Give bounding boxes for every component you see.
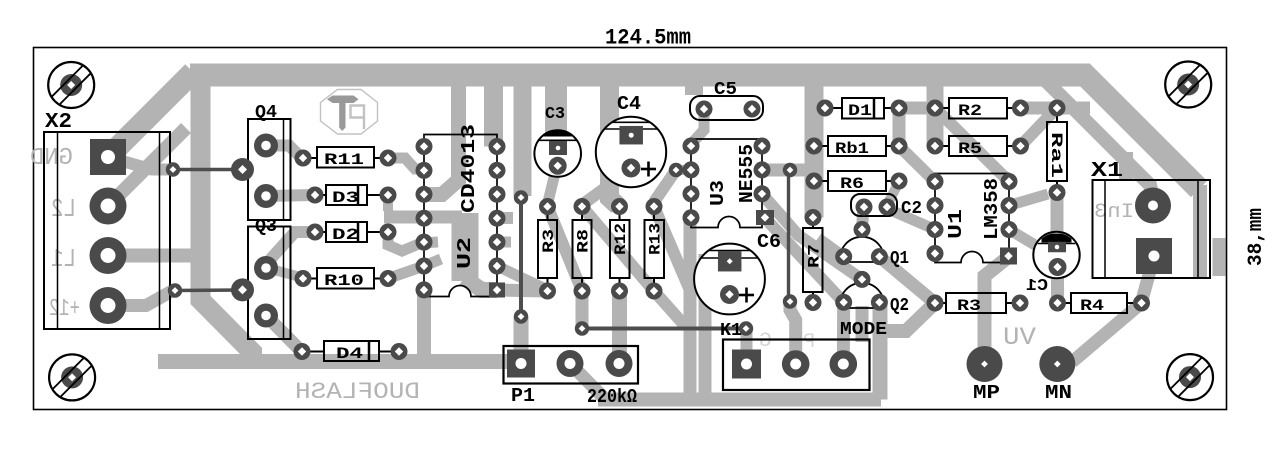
wire: row y217 into U2: [384, 211, 462, 224]
wire: bar elbow to U2 square pad: [464, 278, 497, 290]
pads C2: [856, 199, 873, 216]
pad X2 L2: [90, 188, 127, 225]
resistor R10: [317, 268, 374, 289]
diode D4: [324, 341, 379, 361]
wire: dark horizontal via582 to K1 via: [582, 327, 746, 331]
wire: band inner diagonal to X1: [1045, 80, 1153, 199]
wire: R5 right diag up: [1021, 113, 1053, 146]
svg-text:P: P: [803, 331, 815, 354]
mounting hole top-right: [1165, 62, 1211, 108]
pads Q2: [854, 271, 871, 288]
svg-text:C4: C4: [617, 93, 641, 115]
capacitor C4 body: [596, 117, 666, 187]
wire: band bar b2 to U2 right pin: [484, 75, 503, 147]
wire: via790 to K1 pad2: [790, 302, 796, 365]
wire: U2 right pin diag to R3 bottom: [497, 266, 548, 290]
IC U3 outline: [691, 139, 762, 228]
wire: U2 right pin y218 to right: [497, 212, 513, 224]
svg-text:220kΩ: 220kΩ: [587, 386, 637, 408]
wire: dark vertical via790: [787, 170, 790, 302]
wire: diag R8 top to R13 bottom: [582, 207, 686, 328]
wire: Q2 left to K1 pad3: [837, 302, 850, 364]
wire: band bar b5 to R12 top: [610, 75, 619, 206]
svg-text:R12: R12: [612, 223, 630, 255]
svg-text:D1: D1: [848, 102, 872, 120]
resistor R7: [803, 228, 823, 292]
transistor Q3: [248, 227, 291, 340]
wire: C4 plus pad to R8 top: [583, 170, 630, 204]
capacitor C3 body: [534, 130, 581, 177]
pads left resistor group: [295, 150, 312, 167]
svg-text:L1: L1: [51, 244, 76, 274]
wire: Q1 right diag to R3b left: [879, 257, 935, 303]
svg-text:C5: C5: [714, 80, 737, 100]
pads: X2 GND square: [90, 139, 126, 175]
wire: R2 left diag to U1 pin5: [935, 108, 1009, 182]
wire: band to X2 GND diagonal: [108, 72, 193, 157]
wire: C2 left to Q1 top: [862, 207, 864, 230]
wire: R2 right to Ra1 top: [1021, 102, 1091, 115]
wire: R12 bottom to P1 pad3: [612, 291, 627, 364]
svg-text:U2: U2: [454, 237, 476, 269]
pads trimmer P1: [507, 350, 535, 378]
pads Q1: [854, 221, 871, 238]
mounting hole bottom-right: [1167, 354, 1213, 400]
connector X1 outline: [1093, 180, 1211, 278]
pads C3: [549, 141, 567, 155]
wire: X2 L1 to bar: [108, 249, 202, 263]
wire: Q2 center down to K1: [856, 306, 869, 342]
wire: U3 pin3 diagonal to Q2 top: [762, 194, 862, 280]
svg-text:D2: D2: [332, 226, 359, 244]
wire: R4 right diag to MN: [1072, 303, 1142, 362]
svg-text:38,mm: 38,mm: [1245, 208, 1268, 266]
svg-text:Q4: Q4: [255, 103, 277, 123]
svg-text:L2: L2: [51, 194, 76, 224]
resistor R6: [828, 171, 886, 191]
wire: top supply band: [190, 75, 1199, 189]
svg-text:R8: R8: [575, 229, 593, 253]
svg-text:Rb1: Rb1: [835, 140, 869, 158]
svg-text:GND: GND: [30, 145, 73, 172]
pads vertical resistors R3 R8 R12 R13 R7 Ra1: [539, 198, 556, 215]
svg-text:R3: R3: [540, 229, 558, 253]
wire: dark jumper +12 row to Q3 middle: [175, 288, 241, 292]
wire: D2 right down to U2 pin5: [388, 232, 438, 251]
resistor Rb1: [828, 136, 886, 156]
resistor R13: [645, 220, 665, 278]
pad X2 L1: [90, 237, 127, 274]
mounting hole top-left: [48, 62, 94, 108]
svg-text:124.5mm: 124.5mm: [605, 26, 691, 51]
board outline: [34, 48, 1227, 410]
wire: band bar b4 to C3 minus pad: [545, 75, 567, 140]
svg-text:C1: C1: [1026, 277, 1048, 296]
svg-text:P1: P1: [511, 385, 535, 407]
wire: via to P1 square pad: [514, 317, 529, 364]
capacitor C6 body: [694, 244, 765, 315]
diode D3: [326, 185, 367, 205]
mounting hole bottom-left: [49, 354, 95, 400]
wire: K1 via down to square pad: [741, 330, 753, 352]
svg-text:R4: R4: [1080, 297, 1104, 315]
wire: band bar to C5 left pad: [685, 75, 703, 95]
svg-text:R13: R13: [647, 223, 665, 255]
pads C1: [1048, 242, 1066, 253]
wire: U2 pin7 down to bottom trace: [417, 290, 431, 361]
wire: Q2 right down to bottom band: [873, 303, 888, 400]
pads C6: [718, 251, 742, 272]
wire: P1 pad1 diagonal down: [570, 364, 604, 399]
svg-text:DUOFLASH: DUOFLASH: [295, 379, 420, 405]
wire: vertical drop to X1 box: [1119, 152, 1133, 181]
logo TP octagon (mirrored): [321, 90, 378, 135]
wire: Q3 bottom to D4 left: [266, 316, 301, 352]
svg-text:MN: MN: [1045, 382, 1072, 404]
wire: X2 +12 stub to via: [108, 291, 172, 306]
svg-text:Q1: Q1: [890, 249, 909, 269]
wire: U3 pin4 bar down to bottom band: [684, 220, 697, 396]
wire: C3 minus pad elbow: [566, 147, 577, 160]
wire: R6 right stub to C2 right: [888, 182, 899, 203]
svg-text:In3: In3: [1094, 201, 1134, 224]
pads IC U2: [416, 138, 433, 155]
wire: MP bar up to U1: [985, 258, 1008, 364]
wire: R3b left diag to Q2 vertical: [886, 303, 935, 331]
resistor R3 (vertical): [538, 220, 557, 278]
svg-text:R2: R2: [958, 102, 982, 120]
svg-text:NE555: NE555: [736, 144, 758, 203]
svg-text:LM358: LM358: [981, 178, 1003, 240]
svg-text:+12: +12: [49, 296, 80, 323]
wire: R10 right diag to U2 pin6: [388, 259, 441, 279]
wire: band bar b1 to U2 pin3: [426, 75, 459, 195]
wire: U1 pin6 diag to Ra1 bottom: [1009, 194, 1048, 206]
wire: diag R3 top to R8 bottom: [548, 207, 583, 292]
wire: C1 pad to R4 left: [1051, 267, 1064, 303]
svg-text:MP: MP: [973, 382, 1000, 404]
wire: bottom horizontal to P1: [158, 354, 523, 369]
wire: C5 left pad to U3 pin1: [693, 109, 704, 142]
wire: strip inside X1 right: [1193, 185, 1207, 277]
wire: C6 minus bar down to bottom band: [699, 254, 712, 396]
transistor Q2 outline: [840, 283, 884, 308]
svg-text:R5: R5: [958, 140, 982, 158]
pad MP: [967, 346, 1003, 382]
wire: Q4 bottom pad to D3 left: [266, 195, 314, 196]
svg-text:MODE: MODE: [840, 320, 887, 340]
svg-text:D3: D3: [332, 189, 359, 207]
wire: D1 right down to Rb1 right: [893, 108, 906, 146]
wire: D1 right to R2 left: [899, 102, 935, 115]
resistor Ra1: [1047, 122, 1067, 181]
wire: Q4 top pad to R11 left: [266, 146, 301, 158]
wire: X2 GND stub to via: [108, 157, 172, 170]
svg-text:R7: R7: [806, 244, 824, 268]
svg-text:U1: U1: [945, 209, 967, 239]
op-amp U1 outline: [935, 174, 1009, 263]
pads connector K1: [732, 350, 761, 379]
connector X2: [44, 132, 170, 329]
svg-text:UV: UV: [1003, 323, 1036, 352]
resistor R2: [949, 98, 1007, 119]
wire: left vertical bar from band down to bottom trace: [201, 75, 253, 362]
capacitor C5 body: [690, 96, 763, 120]
diode D1: [842, 98, 884, 119]
wire: band bar to R2 left: [927, 75, 944, 146]
plus sign C4: [641, 168, 656, 171]
pads C4: [619, 126, 643, 145]
wire: strip right of X1: [1213, 238, 1226, 276]
resistor R12: [610, 220, 630, 278]
wire: diag R13 top to U3 bar: [654, 207, 689, 289]
transistor Q1 outline: [840, 237, 884, 262]
pads connector X1: [1135, 188, 1171, 224]
wire: wide bar inside U2 to square pad: [452, 213, 479, 281]
svg-text:C2: C2: [901, 199, 922, 219]
pad MN: [1039, 346, 1075, 382]
svg-text:C6: C6: [757, 231, 781, 253]
capacitor C1 body: [1033, 232, 1079, 278]
wire: D2 left to Q3 top: [267, 232, 314, 263]
wire: dark jumper GND row to Q4 middle: [173, 168, 240, 171]
svg-text:CD4013: CD4013: [458, 124, 480, 213]
wire: R10 left to Q3 top: [267, 268, 300, 277]
wire: Ra1 bottom to C1: [1051, 193, 1064, 241]
svg-text:X1: X1: [1091, 160, 1123, 183]
wire: via to R13 top: [654, 170, 676, 202]
plus sign C6: [739, 294, 754, 297]
wire: R11 right to U2 pin2: [388, 158, 424, 169]
wire: dark vertical via521: [519, 198, 523, 317]
svg-text:Q3: Q3: [255, 217, 277, 237]
transistor Q4: [248, 119, 291, 220]
vias: [166, 162, 180, 176]
svg-text:Q2: Q2: [890, 296, 909, 316]
trimmer P1 outline: [504, 346, 639, 384]
pads Q4: [254, 134, 278, 158]
svg-text:R11: R11: [324, 151, 364, 169]
wire: C3 plus pad to R3 top: [548, 169, 556, 202]
component lead lines: [303, 157, 317, 159]
wire: U2 sq pad to R3 bottom: [497, 290, 548, 291]
pads right resistor rows: [817, 100, 834, 117]
wire: via stub to U3 pin: [676, 165, 690, 175]
svg-text:D4: D4: [336, 345, 364, 363]
wire: U2 right pin y242 to right: [497, 237, 511, 248]
wire: Q1 left stub: [818, 238, 844, 257]
svg-text:Ra1: Ra1: [1047, 132, 1065, 178]
pads C5: [696, 101, 713, 118]
svg-text:U3: U3: [707, 180, 729, 206]
wire: U3 pin4 diagonal to Q2 left: [765, 218, 844, 302]
svg-text:R10: R10: [324, 272, 364, 290]
resistor R3 (right): [946, 293, 1006, 313]
svg-text:R3: R3: [957, 297, 981, 315]
wire: X1 square to R4 right: [1142, 260, 1153, 300]
wire: D3 right down to row y217: [383, 195, 393, 211]
connector K1 outline: [723, 340, 870, 391]
capacitor C2 body: [851, 194, 897, 216]
svg-text:X2: X2: [45, 111, 72, 134]
resistor R5: [949, 136, 1007, 156]
pad X2 +12: [90, 287, 127, 324]
IC U2 outline: [424, 135, 497, 297]
wire: bottom band under K1: [598, 393, 881, 407]
resistor R4: [1071, 293, 1127, 313]
svg-text:R6: R6: [840, 175, 864, 193]
wire: C2 right diag to U1 pin3: [888, 209, 935, 230]
wire: U3 pin to bar row y170: [762, 164, 812, 177]
pads Q3: [254, 256, 278, 280]
pads IC U3: [683, 138, 700, 155]
wire: band bar b3 to via: [514, 75, 532, 196]
resistor R11: [317, 147, 374, 168]
wire: band bar to Rb1 R6 R7: [805, 75, 824, 218]
pads op-amp U1: [927, 173, 944, 190]
resistor R8: [573, 220, 592, 278]
wire: X2 L2 diagonal to bar: [108, 128, 186, 206]
wire: R8 bottom to via: [576, 291, 589, 329]
svg-text:C3: C3: [545, 105, 565, 124]
wire: Rb1 right diag to U1 pin1: [899, 146, 935, 182]
diode D2: [326, 222, 367, 242]
svg-text:K1: K1: [720, 321, 742, 341]
wire: U1 pin7 diag to C1: [1009, 230, 1040, 249]
wire: D1 left stub: [812, 102, 825, 114]
